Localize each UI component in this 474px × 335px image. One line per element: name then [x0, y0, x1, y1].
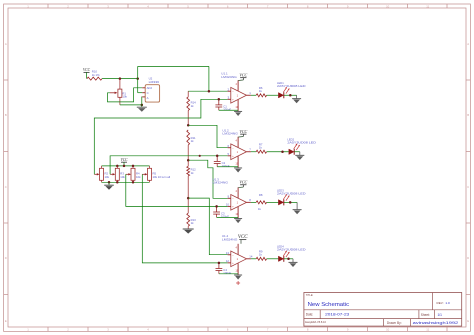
resistor R14 [187, 91, 196, 125]
svg-text:2A5Y3UD08 LED: 2A5Y3UD08 LED [287, 141, 316, 145]
svg-text:E: E [5, 319, 7, 323]
svg-text:14: 14 [249, 255, 253, 259]
svg-text:C: C [147, 91, 149, 95]
svg-text:Sheet:: Sheet: [421, 313, 430, 317]
svg-text:Drawn By:: Drawn By: [387, 321, 402, 325]
svg-text:ADJ: ADJ [147, 86, 153, 90]
origin cross marker [236, 281, 240, 285]
svg-text:C: C [467, 185, 469, 189]
junction bottom rail gnd [108, 181, 111, 184]
svg-text:4: 4 [147, 328, 149, 332]
svg-text:+: + [232, 261, 234, 265]
svg-text:LM324NG: LM324NG [221, 75, 237, 79]
wire node X up to top rail and LM336 C pin [137, 66, 139, 92]
wire R4 wiper to U1.3 pin 10 [126, 174, 228, 206]
resistor R13 [187, 198, 196, 229]
ground below pot bank [104, 182, 114, 190]
junction at LED2 [281, 151, 284, 154]
wire R1 wiper loop to LM336 ADJ [108, 88, 143, 102]
wire R1 bottom to ground node [120, 104, 142, 106]
junction top rail VCC [123, 165, 126, 168]
LED LED4 2A5Y3UD08 [277, 245, 306, 262]
svg-text:100nF: 100nF [223, 271, 231, 275]
capacitor C1 100nF [215, 99, 231, 111]
op-amp U1.1 LM324NG [221, 72, 251, 112]
svg-text:VCC: VCC [83, 68, 91, 72]
resistor R11 [187, 130, 196, 160]
capacitor C4 100nF [216, 263, 232, 275]
wire U1.3 output to R8 [251, 201, 256, 203]
junction on U1.2 pin 5 wire [199, 155, 201, 157]
junction top rail R4 [132, 165, 135, 168]
LED LED3 2A5Y3UD08 [277, 188, 306, 205]
resistor R6 1k [256, 86, 266, 97]
junction top rail R3 [116, 165, 119, 168]
wire C1 to ground [219, 109, 238, 111]
resistor R10 [87, 70, 102, 81]
wire node C to U1.3 pin 9 [188, 160, 227, 198]
svg-text:10: 10 [386, 328, 390, 332]
capacitor C2 100nF [214, 156, 230, 168]
svg-text:2: 2 [67, 328, 69, 332]
ground at LED4 [289, 259, 298, 267]
junction node B [187, 124, 190, 127]
svg-text:VCC: VCC [121, 158, 129, 162]
wire U1.1 output to R6 [251, 94, 256, 96]
svg-text:10k: 10k [136, 175, 141, 179]
svg-text:TITLE:: TITLE: [306, 294, 314, 297]
svg-text:A: A [5, 42, 7, 46]
svg-text:D: D [467, 256, 469, 260]
svg-text:LM336: LM336 [149, 80, 160, 84]
svg-text:1: 1 [237, 201, 239, 205]
svg-text:+: + [232, 205, 234, 209]
svg-text:LM324NG: LM324NG [222, 237, 238, 241]
junction bottom rail R3 [116, 181, 119, 184]
wire top rail down to U1.1 pin2 net [208, 66, 210, 91]
wire pot bank top rail [102, 165, 150, 167]
wire C2 to ground [217, 166, 238, 168]
svg-text:7: 7 [249, 147, 251, 151]
junction C4 tap [218, 262, 221, 265]
wire R10 to node X [102, 78, 138, 80]
ground at LED2 [295, 152, 304, 160]
wire LED3 cathode to ground [284, 201, 297, 203]
svg-text:D: D [5, 256, 7, 260]
wire node B to U1.2 pin 6 [188, 125, 227, 147]
junction LM336 anode ground node [141, 104, 144, 107]
svg-text:11: 11 [426, 4, 429, 8]
wire R5 wiper to U1.4 pin 12 [142, 174, 227, 263]
wire LED2 cathode to ground [294, 151, 299, 153]
op-amp U1.3 LM324NG [213, 177, 251, 218]
svg-text:R8: R8 [259, 193, 263, 197]
junction R1 top tap [119, 77, 122, 80]
svg-text:3: 3 [107, 328, 109, 332]
resistor R7 1k [256, 142, 266, 153]
wire LM336 A pin to ground node [141, 97, 144, 105]
svg-text:2A5Y3UD08 LED: 2A5Y3UD08 LED [277, 84, 306, 88]
title block texts [305, 294, 459, 325]
svg-text:2A5Y3UD08 LED: 2A5Y3UD08 LED [277, 248, 306, 252]
wire node A to U1.1 pin 2 [188, 90, 227, 92]
svg-text:A: A [147, 96, 149, 100]
svg-text:1.0: 1.0 [445, 301, 450, 305]
power flag VCC (U1.2) [238, 129, 247, 137]
wire R9 to LED4 [267, 258, 279, 260]
svg-text:11: 11 [426, 328, 429, 332]
junction node A / top rail [208, 90, 211, 93]
wire LM336 C pin [138, 92, 143, 94]
LED LED2 2A5Y3UD08 [287, 138, 316, 155]
svg-text:10k 10 turn all: 10k 10 turn all [153, 175, 171, 179]
potentiometer R5 [142, 166, 170, 182]
wire R2 wiper to U1.1 pin 3 [94, 99, 227, 174]
junction C2 tap [216, 155, 219, 158]
svg-text:1: 1 [249, 91, 251, 95]
svg-text:A: A [467, 42, 469, 46]
title block [304, 293, 462, 327]
svg-text:1k 1%: 1k 1% [92, 73, 100, 77]
svg-text:REV:: REV: [437, 301, 444, 305]
potentiometer R3 [110, 166, 125, 182]
svg-text:Date:: Date: [306, 312, 314, 316]
junction at LED4 [287, 258, 290, 261]
svg-text:1: 1 [27, 328, 29, 332]
wire C4 to ground [219, 273, 238, 275]
ground at U1.1 power pin [234, 110, 242, 112]
wire C3 to ground [217, 216, 239, 218]
junction C1 tap [218, 98, 221, 101]
op-amp U1.2 LM324NG [222, 128, 251, 167]
svg-text:LM324NG: LM324NG [222, 132, 238, 136]
svg-text:LM324NG: LM324NG [213, 180, 229, 184]
wire U1.4 output to R9 [251, 258, 256, 260]
wire R3 wiper to U1.2 pin 5 [110, 156, 228, 175]
svg-text:1: 1 [237, 94, 239, 98]
op-amp U1.4 LM324NG [222, 234, 251, 275]
ground at U1.4 power pin [234, 274, 242, 276]
wire VCC stub to R10 [86, 72, 88, 78]
ground at U1.2 power pin [234, 167, 242, 169]
svg-text:VCC: VCC [239, 72, 247, 77]
svg-text:E: E [467, 319, 469, 323]
ground below LM336 [137, 105, 147, 112]
svg-text:B: B [5, 113, 7, 117]
svg-text:10k: 10k [120, 175, 125, 179]
power flag VCC (U1.1) [238, 72, 247, 80]
svg-text:2018-07-23: 2018-07-23 [325, 312, 349, 316]
junction node X [136, 77, 139, 80]
svg-text:−: − [232, 196, 234, 200]
junction at LED3 [289, 201, 292, 204]
ground below R13 [183, 228, 194, 230]
svg-text:8: 8 [307, 328, 309, 332]
svg-text:7: 7 [267, 328, 269, 332]
svg-text:13: 13 [226, 251, 230, 255]
power flag VCC (U1.4) [238, 235, 248, 244]
svg-text:+: + [232, 154, 234, 158]
wire R7 to LED2 [267, 151, 289, 153]
svg-text:12: 12 [226, 259, 230, 263]
power flag VCC (R10 input) [83, 68, 91, 72]
wire pot bank bottom rail [102, 181, 150, 183]
potentiometer R1 [110, 79, 128, 105]
svg-text:avinashsingh1992: avinashsingh1992 [413, 320, 460, 325]
wire U1.2 output to R7 [251, 151, 256, 153]
svg-text:EasyEDA V5.8.10: EasyEDA V5.8.10 [305, 320, 326, 324]
svg-text:+: + [232, 97, 234, 101]
svg-text:VCC: VCC [239, 179, 247, 184]
resistor R12 [187, 160, 196, 198]
capacitor C3 100nF [213, 206, 229, 218]
svg-text:B: B [467, 113, 469, 117]
svg-text:2A5Y3UD08 LED: 2A5Y3UD08 LED [277, 191, 306, 195]
svg-text:C: C [5, 185, 7, 189]
svg-text:1: 1 [237, 150, 239, 154]
svg-text:4: 4 [236, 190, 238, 193]
svg-text:100nF: 100nF [221, 215, 229, 219]
svg-text:1k: 1k [258, 207, 262, 211]
svg-text:9: 9 [347, 328, 349, 332]
svg-text:5: 5 [187, 328, 189, 332]
wire LED4 cathode to ground [284, 258, 293, 260]
power flag VCC (pot bank) [121, 158, 129, 166]
svg-text:−: − [232, 146, 234, 150]
wire top rail [138, 65, 209, 67]
svg-text:10: 10 [386, 4, 390, 8]
svg-text:100nF: 100nF [223, 108, 231, 112]
junction at LED1 [289, 94, 292, 97]
potentiometer R2 [94, 166, 109, 182]
svg-text:−: − [232, 89, 234, 93]
svg-text:4: 4 [236, 247, 238, 250]
svg-text:1: 1 [237, 257, 239, 261]
svg-text:VCC: VCC [239, 129, 247, 134]
svg-text:−: − [232, 253, 234, 257]
junction node C [187, 159, 190, 162]
power flag VCC (U1.3) [238, 179, 247, 187]
ground at LED3 [293, 202, 302, 214]
LED LED1 2A5Y3UD08 [277, 81, 306, 98]
svg-text:100nF: 100nF [222, 164, 230, 168]
potentiometer R4 [126, 166, 141, 182]
wire R6 to LED1 [267, 94, 279, 96]
svg-text:4: 4 [236, 139, 238, 142]
svg-text:6: 6 [227, 328, 229, 332]
junction C3 tap [215, 205, 218, 208]
svg-text:10k: 10k [105, 175, 110, 179]
resistor R8 1k [256, 193, 266, 211]
svg-text:10: 10 [226, 203, 230, 207]
wire node D to U1.4 pin 13 [188, 198, 227, 255]
resistor R9 1k [256, 249, 266, 260]
svg-text:1/1: 1/1 [438, 313, 443, 317]
junction node D [187, 197, 190, 200]
wire R8 to LED3 [267, 201, 279, 203]
ground at LED1 [292, 95, 301, 103]
junction bottom rail R4 [132, 181, 135, 184]
svg-text:New Schematic: New Schematic [308, 302, 350, 308]
ground at U1.3 power pin [234, 218, 242, 220]
voltage reference U2 LM336 [142, 77, 159, 103]
svg-text:4: 4 [236, 83, 238, 86]
svg-text:8: 8 [249, 198, 251, 202]
wire LED1 cathode to ground [284, 94, 297, 96]
svg-text:10k: 10k [122, 95, 127, 99]
